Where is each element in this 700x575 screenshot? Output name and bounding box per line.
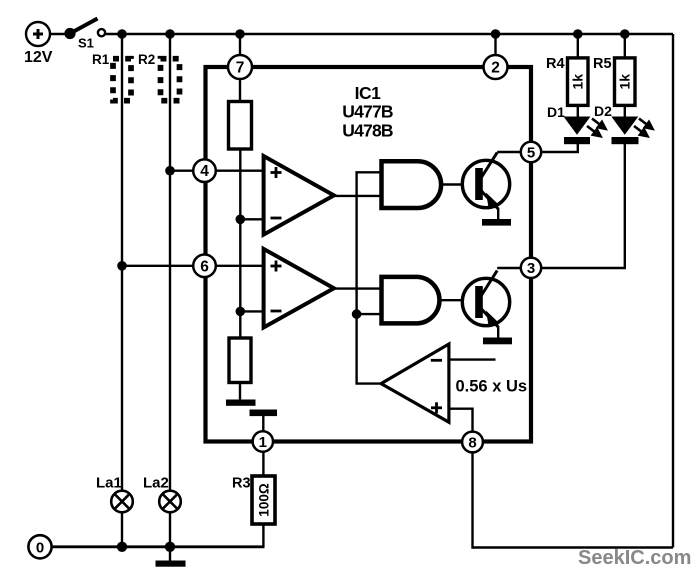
lamp La2: [159, 491, 181, 513]
pin 7: [228, 55, 252, 79]
svg-text:La2: La2: [143, 475, 169, 492]
junction dot (La2 line / pin 4 wire): [165, 166, 175, 176]
wire: pin 7 stem: [239, 34, 241, 56]
svg-text:U477B: U477B: [342, 102, 393, 122]
junction dot (R4 / top rail): [573, 29, 583, 39]
battery terminal + (12V): [26, 22, 50, 46]
svg-text:7: 7: [236, 60, 245, 77]
junction dot (La2 / bottom rail): [165, 542, 175, 552]
svg-text:12V: 12V: [24, 49, 53, 66]
op-amp U1B: [264, 249, 334, 328]
LED D1 arrows: [587, 119, 606, 137]
wire: Q1 collector to pin 5: [497, 151, 521, 153]
resistor R5: [615, 58, 636, 106]
resistor internal upper: [229, 102, 252, 150]
pin 4: [193, 159, 216, 182]
wire: oscillator output bus to AND gates: [357, 172, 382, 383]
svg-text:0: 0: [36, 540, 44, 557]
wire: D1 to pin 5: [542, 144, 578, 152]
ground (bottom rail): [169, 547, 171, 561]
wire: R5 to D2: [624, 105, 626, 117]
wire: Q2 collector to pin 3: [497, 267, 521, 269]
junction dot (La1 / bottom rail): [117, 542, 127, 552]
svg-text:IC1: IC1: [355, 83, 382, 103]
wire: right edge down: [672, 34, 674, 548]
wire: pin 7 to internal resistor: [239, 78, 241, 102]
LED D1: [564, 117, 591, 135]
junction dot (pin 2 / top rail): [491, 29, 501, 39]
pin 8: [462, 432, 483, 453]
ground (Q1 emitter): [497, 208, 499, 220]
svg-text:100Ω: 100Ω: [256, 483, 271, 517]
wire: R4 stem: [577, 34, 579, 59]
svg-text:6: 6: [200, 258, 209, 275]
junction dot (R5 / top rail): [620, 29, 630, 39]
wire: La2 to bottom rail: [169, 511, 171, 547]
junction dot (divider / op-amp B inv): [236, 307, 246, 317]
pin 5: [521, 142, 541, 162]
oscillator op-amp: [381, 344, 449, 422]
junction dot (La1 line / pin 6 wire): [117, 261, 127, 271]
svg-text:0.56 x Us: 0.56 x Us: [456, 378, 528, 396]
wire: D2 to pin 3: [542, 144, 625, 268]
wire: oscillator + to pin 8: [449, 409, 473, 432]
wire: R3 to bottom rail: [262, 524, 264, 547]
pin 6: [193, 254, 216, 277]
wire: op-amp B output to AND2: [334, 287, 382, 289]
junction dot (La1 / top rail): [117, 29, 127, 39]
wire: La1 to bottom rail: [121, 511, 123, 547]
svg-text:1: 1: [259, 434, 267, 451]
wire: internal divider vertical: [239, 149, 241, 338]
wire: pin 8 to bottom right: [473, 450, 674, 548]
pin 2: [484, 55, 508, 79]
IC1 box outline: [206, 67, 532, 442]
pin 1: [253, 431, 273, 451]
wire: top +12V rail: [105, 33, 673, 35]
resistor R2 (dashed optional): [161, 59, 180, 101]
wire: pin 2 stem: [494, 34, 496, 56]
svg-text:R4: R4: [546, 56, 565, 72]
wire: pin 1 to R3: [262, 452, 264, 476]
transistor Q1: [462, 160, 509, 207]
wire: AND1 to Q1 base: [441, 183, 463, 185]
svg-text:R5: R5: [593, 56, 612, 72]
pin 3: [521, 258, 541, 278]
AND gate 1: [382, 161, 442, 208]
svg-text:5: 5: [527, 144, 535, 161]
wire: R4 to D1: [577, 105, 579, 117]
svg-text:8: 8: [468, 434, 476, 451]
svg-text:D1: D1: [547, 104, 565, 120]
svg-text:3: 3: [527, 260, 535, 277]
wire: op-amp B inverting input: [240, 310, 263, 312]
wire: La1 branch vertical: [121, 34, 123, 492]
ground (above pin 1): [250, 410, 278, 417]
svg-text:2: 2: [491, 60, 500, 77]
svg-text:1k: 1k: [617, 74, 633, 90]
terminal 0: [28, 535, 51, 558]
resistor R1 (dashed optional): [113, 59, 131, 101]
svg-text:4: 4: [200, 163, 209, 180]
LED D2: [611, 117, 638, 135]
svg-text:S1: S1: [78, 36, 94, 51]
svg-text:R1: R1: [92, 52, 110, 67]
svg-text:D2: D2: [594, 103, 612, 119]
wire: AND2 to Q2 base: [441, 299, 463, 301]
wire: op-amp A inverting input: [240, 218, 263, 220]
wire: La2 branch vertical: [169, 34, 171, 492]
resistor R4: [568, 58, 589, 106]
svg-text:La1: La1: [96, 475, 122, 492]
junction dot (osc bus / AND2 input): [352, 309, 362, 319]
junction dot (divider / op-amp A inv): [236, 215, 246, 225]
AND gate 2: [382, 277, 440, 324]
junction dot (La2 / top rail): [165, 29, 175, 39]
switch S1: [64, 28, 75, 39]
resistor internal lower: [229, 338, 251, 383]
transistor Q2: [462, 278, 509, 325]
svg-text:U478B: U478B: [342, 120, 393, 140]
svg-text:SeekIC.com: SeekIC.com: [578, 547, 691, 569]
junction dot (pin 7 / top rail): [235, 29, 245, 39]
wire: pin 6 input: [122, 265, 264, 267]
resistor R3: [252, 476, 275, 524]
svg-text:R3: R3: [232, 476, 251, 492]
wire: pin 4 input: [170, 169, 264, 171]
wire: supply to switch: [49, 33, 66, 35]
wire: op-amp A output to AND1: [334, 195, 382, 197]
wire: oscillator inverting ref: [449, 358, 496, 360]
wire: R5 stem: [624, 34, 626, 59]
ground (Q2 emitter): [497, 326, 499, 338]
lamp La1: [111, 491, 133, 513]
ground (below lower resistor): [239, 383, 241, 401]
op-amp U1A: [264, 156, 334, 235]
svg-text:1k: 1k: [570, 74, 586, 90]
LED D2 arrows: [634, 119, 653, 137]
svg-text:R2: R2: [138, 52, 155, 67]
wire: bottom rail: [51, 545, 265, 548]
